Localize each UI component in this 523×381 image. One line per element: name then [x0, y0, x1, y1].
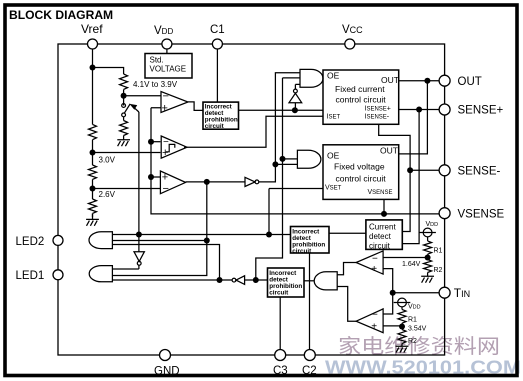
- svg-text:2.6V: 2.6V: [99, 190, 116, 199]
- resistor R2 (1.64V): [424, 260, 432, 277]
- power VDD symbol 2: [398, 298, 407, 307]
- node 3.0V: [90, 150, 96, 156]
- ground below R2: [421, 276, 434, 282]
- svg-text:R1: R1: [408, 317, 417, 324]
- label current detect box: [369, 223, 396, 251]
- node SENSE-: [407, 167, 413, 173]
- buffer into gate1 (up): [289, 84, 302, 110]
- wire LED1 gate top input from inverter: [112, 265, 138, 269]
- svg-text:−: −: [163, 183, 169, 195]
- resistor Vref chain R-b (3.0V-2.6V): [89, 165, 97, 179]
- resistor below switch: [120, 121, 128, 140]
- svg-text:ISENSE-: ISENSE-: [365, 114, 390, 121]
- pin LED2: [53, 235, 63, 245]
- wire comp5 plus to 3.54V divider: [383, 325, 402, 327]
- pin Vref: [88, 39, 98, 49]
- schmitt symbol U2: [166, 144, 175, 151]
- node 1.64V: [425, 255, 431, 261]
- wire comp2 output to ISET: [184, 116, 323, 147]
- wire ISENSE+ to SENSE+ pin: [399, 109, 439, 111]
- wire SENSE- pin wire: [410, 169, 439, 171]
- wire VSET line: [269, 188, 323, 190]
- node gate2 a: [280, 156, 286, 162]
- comparator U2 schmitt (3.0V): [161, 136, 187, 158]
- wire gate2 bottom input: [275, 163, 297, 165]
- svg-text:VOLTAGE: VOLTAGE: [150, 65, 187, 74]
- comparator U1 (4.1V): [161, 92, 188, 113]
- svg-text:SENSE-: SENSE-: [458, 166, 501, 178]
- wire comp2 top input: [151, 141, 160, 143]
- svg-text:circuit: circuit: [269, 289, 289, 296]
- AND gate Tin: [314, 272, 337, 290]
- wire Tin node to pin: [393, 292, 439, 294]
- node box3 in: [253, 277, 259, 283]
- ground below R2 (3.54V): [396, 346, 409, 352]
- pin Vcc: [345, 39, 355, 49]
- comparator U3 (2.6V): [160, 171, 185, 194]
- node 2.6V: [90, 186, 96, 192]
- pin C2: [304, 350, 315, 361]
- wire comp1 output to box: [188, 102, 203, 111]
- wire switch control vertical: [138, 112, 140, 252]
- wire VDD2 symbol to R1 3.54V chain: [401, 307, 403, 310]
- wire C2 to incorrect box2: [309, 253, 311, 355]
- svg-text:OUT: OUT: [380, 146, 398, 156]
- svg-text:C1: C1: [210, 24, 225, 36]
- box incorrect detect prohibition 2: [291, 227, 330, 254]
- svg-text:R1: R1: [434, 248, 443, 255]
- pin C1: [212, 39, 222, 49]
- svg-text:1.64V: 1.64V: [402, 261, 421, 268]
- node 4.1V: [121, 93, 127, 99]
- wire 1.64V node R2 ground: [427, 254, 429, 259]
- svg-text:Fixed voltage: Fixed voltage: [334, 162, 385, 172]
- wire buffer out up to OE gates: [259, 73, 300, 182]
- svg-text:C2: C2: [302, 365, 317, 377]
- svg-text:Current: Current: [369, 223, 396, 232]
- svg-text:−: −: [163, 91, 169, 103]
- node LED1 bottom: [217, 277, 223, 283]
- box fixed current control circuit: [323, 70, 399, 124]
- svg-text:OUT: OUT: [458, 76, 482, 88]
- wire 3.54V node R2 ground: [401, 323, 403, 329]
- node Vref branch: [90, 65, 96, 71]
- inverter LED1 bottom (left): [236, 276, 245, 285]
- pin OUT: [439, 75, 450, 86]
- pin VSENSE: [439, 208, 450, 219]
- pin VDD: [162, 39, 172, 49]
- svg-text:OE: OE: [327, 71, 340, 81]
- svg-text:detect: detect: [369, 232, 392, 241]
- wire comp4 plus to Tin node: [383, 269, 393, 293]
- AND gate LED2: [89, 232, 112, 249]
- power VDD symbol 1: [423, 228, 432, 237]
- svg-text:C3: C3: [273, 365, 288, 377]
- wire SENSE+ node down to current detect: [402, 110, 419, 244]
- wire VSET corner down to LED2 wire: [268, 189, 270, 235]
- switch control arrow: [131, 105, 139, 112]
- pin SENSE+: [439, 104, 450, 115]
- wire C1 pin to incorrect-detect box 1: [216, 44, 218, 102]
- label box fixed current: [327, 71, 399, 121]
- wire box2 VSENSE down to VSENSE line: [383, 199, 385, 214]
- svg-text:LED1: LED1: [16, 270, 45, 282]
- switch SW1: [122, 104, 126, 108]
- node LED2 top: [266, 232, 272, 238]
- wire LED2 gate middle input: [112, 240, 206, 242]
- node gate2 b: [272, 161, 278, 167]
- wire incorrect box2 to current detect box: [329, 232, 366, 234]
- box incorrect detect prohibition 3: [268, 268, 305, 297]
- svg-text:Vref: Vref: [81, 22, 103, 36]
- svg-text:Std.: Std.: [150, 56, 164, 65]
- node 3.54V: [399, 324, 405, 330]
- wire comp5 minus to Tin node: [383, 293, 393, 314]
- svg-text:control circuit: control circuit: [336, 95, 387, 105]
- svg-text:VSENSE: VSENSE: [368, 189, 393, 196]
- svg-text:circuit: circuit: [292, 248, 312, 255]
- svg-text:VDD: VDD: [426, 221, 439, 228]
- wire 3.0V node: [93, 140, 161, 165]
- node Tin: [390, 290, 396, 296]
- svg-text:VCC: VCC: [342, 24, 363, 36]
- wire ISENSE- from box1 bottom to SENSE-: [379, 124, 410, 170]
- node comp3 in: [148, 174, 154, 180]
- svg-text:SENSE+: SENSE+: [458, 105, 504, 117]
- pin C3: [275, 350, 286, 361]
- wire 4.1V node to comparator minus: [124, 90, 161, 106]
- svg-text:VDD: VDD: [154, 25, 173, 37]
- resistor Vref chain R-c (below 2.6V): [89, 199, 97, 219]
- svg-text:BLOCK DIAGRAM: BLOCK DIAGRAM: [9, 8, 113, 22]
- wire VDD pin to Std VOLTAGE box: [166, 44, 168, 54]
- svg-text:4.1V to 3.9V: 4.1V to 3.9V: [133, 80, 178, 89]
- resistor R1 (1.64V): [424, 241, 432, 254]
- svg-text:VSET: VSET: [325, 185, 342, 192]
- svg-text:Fixed current: Fixed current: [335, 84, 385, 94]
- pin LED1: [53, 270, 63, 280]
- wire comp3 top input: [151, 176, 160, 178]
- svg-text:3.0V: 3.0V: [99, 156, 116, 165]
- box Std VOLTAGE: [145, 54, 192, 79]
- label box fixed voltage: [325, 146, 398, 197]
- pin GND: [160, 350, 171, 361]
- svg-text:+: +: [162, 147, 168, 159]
- resistor Vref chain R-a: [89, 124, 97, 139]
- ground below switch resistor: [117, 140, 130, 146]
- node switch ctrl: [136, 232, 142, 238]
- wire x282.5 vertical OE bus: [256, 78, 300, 280]
- wire VDD symbol to R1 1.64V chain: [427, 237, 429, 241]
- svg-text:R2: R2: [434, 267, 443, 274]
- AND gate LED1: [89, 266, 112, 282]
- wire LED1 gate bottom input: [112, 279, 232, 281]
- pin TIN: [439, 287, 450, 298]
- wire SENSE- node down to current detect: [402, 170, 410, 231]
- node comp2 in: [148, 139, 154, 145]
- wire LED2 gate top input to incorrect box2: [112, 234, 290, 236]
- wire comp3 output to buffer: [186, 181, 245, 183]
- svg-text:circuit: circuit: [205, 123, 225, 130]
- pin SENSE-: [439, 165, 450, 176]
- node ISET buffer: [292, 107, 298, 113]
- svg-text:LED2: LED2: [16, 236, 45, 248]
- wire below 2.6V resistor to ground: [92, 214, 94, 218]
- wire box1out to AND buffer and fixed current box: [239, 109, 324, 111]
- wire Vref vertical: [92, 44, 94, 124]
- svg-text:3.54V: 3.54V: [408, 326, 427, 333]
- wire comp4 minus to 1.64V divider: [383, 257, 428, 259]
- svg-text:VDD: VDD: [408, 304, 421, 311]
- node VSENSE: [381, 211, 387, 217]
- svg-text:control circuit: control circuit: [336, 174, 387, 184]
- node LED2 middle: [204, 238, 210, 244]
- wire LED2 gate bottom input: [112, 245, 219, 281]
- svg-text:VSENSE: VSENSE: [458, 209, 505, 221]
- wire switch to resistor to ground: [123, 117, 125, 121]
- wire box3 to Tin AND gate: [304, 280, 314, 282]
- comparator U4 (1.64V): [356, 251, 383, 274]
- svg-text:−: −: [372, 253, 378, 264]
- resistor R1 (3.54V): [398, 309, 406, 323]
- wire gate2 top input: [283, 158, 298, 160]
- resistor 4.1V divider top: [120, 74, 128, 89]
- svg-text:ISET: ISET: [327, 114, 341, 121]
- AND gate OE voltage: [297, 150, 321, 168]
- node OUT: [424, 78, 430, 84]
- svg-text:+: +: [371, 322, 377, 333]
- box current detect circuit: [366, 220, 402, 250]
- box fixed voltage control circuit: [323, 145, 399, 200]
- wire Vref branch to 4.1V resistor: [93, 68, 124, 75]
- node comp3 out: [204, 179, 210, 185]
- wire 2.6V node: [93, 179, 161, 199]
- svg-text:−: −: [372, 310, 378, 321]
- wire C3 to box3: [279, 297, 281, 355]
- inverter below LED2 (down): [134, 252, 144, 262]
- wire box1 OUT to pin: [399, 80, 439, 82]
- IC package outline: [58, 44, 445, 355]
- wire Tin gate input1 from comp4: [337, 263, 356, 275]
- svg-text:TIN: TIN: [454, 286, 470, 300]
- svg-text:ISENSE+: ISENSE+: [365, 106, 391, 113]
- resistor R2 (3.54V): [398, 330, 406, 347]
- svg-text:+: +: [371, 264, 377, 275]
- svg-text:+: +: [162, 102, 168, 114]
- wire inverter to box3: [245, 279, 268, 281]
- buffer after comp3: [245, 177, 255, 186]
- svg-text:OE: OE: [327, 151, 340, 161]
- comparator U5 (3.54V): [356, 309, 383, 333]
- wire box2 OUT up to OUT node: [399, 81, 428, 154]
- wire comparator plus bus x=151: [151, 108, 439, 214]
- svg-text:GND: GND: [154, 366, 180, 378]
- svg-text:R2: R2: [408, 338, 417, 345]
- svg-text:+: +: [162, 172, 168, 184]
- wire Tin gate input2 from comp5: [337, 287, 356, 322]
- svg-text:circuit: circuit: [369, 242, 391, 251]
- wire comp3out vertical to LED gates: [112, 182, 206, 276]
- box incorrect detect prohibition 1: [203, 102, 239, 129]
- AND gate OE current: [300, 69, 323, 87]
- ground below Vref chain: [86, 219, 99, 225]
- node SENSE+: [416, 107, 422, 113]
